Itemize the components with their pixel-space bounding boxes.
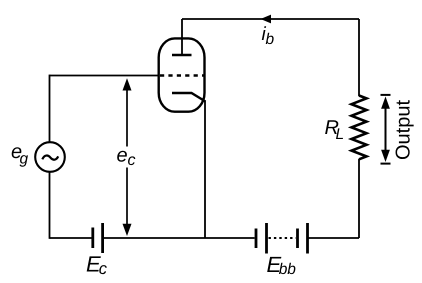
svg-text:L: L (336, 126, 345, 143)
svg-text:c: c (128, 152, 136, 169)
svg-text:b: b (266, 31, 275, 48)
svg-text:bb: bb (279, 261, 297, 278)
svg-text:e: e (117, 145, 128, 167)
svg-text:c: c (99, 260, 108, 278)
svg-text:Output: Output (392, 100, 414, 160)
svg-text:g: g (20, 151, 29, 168)
